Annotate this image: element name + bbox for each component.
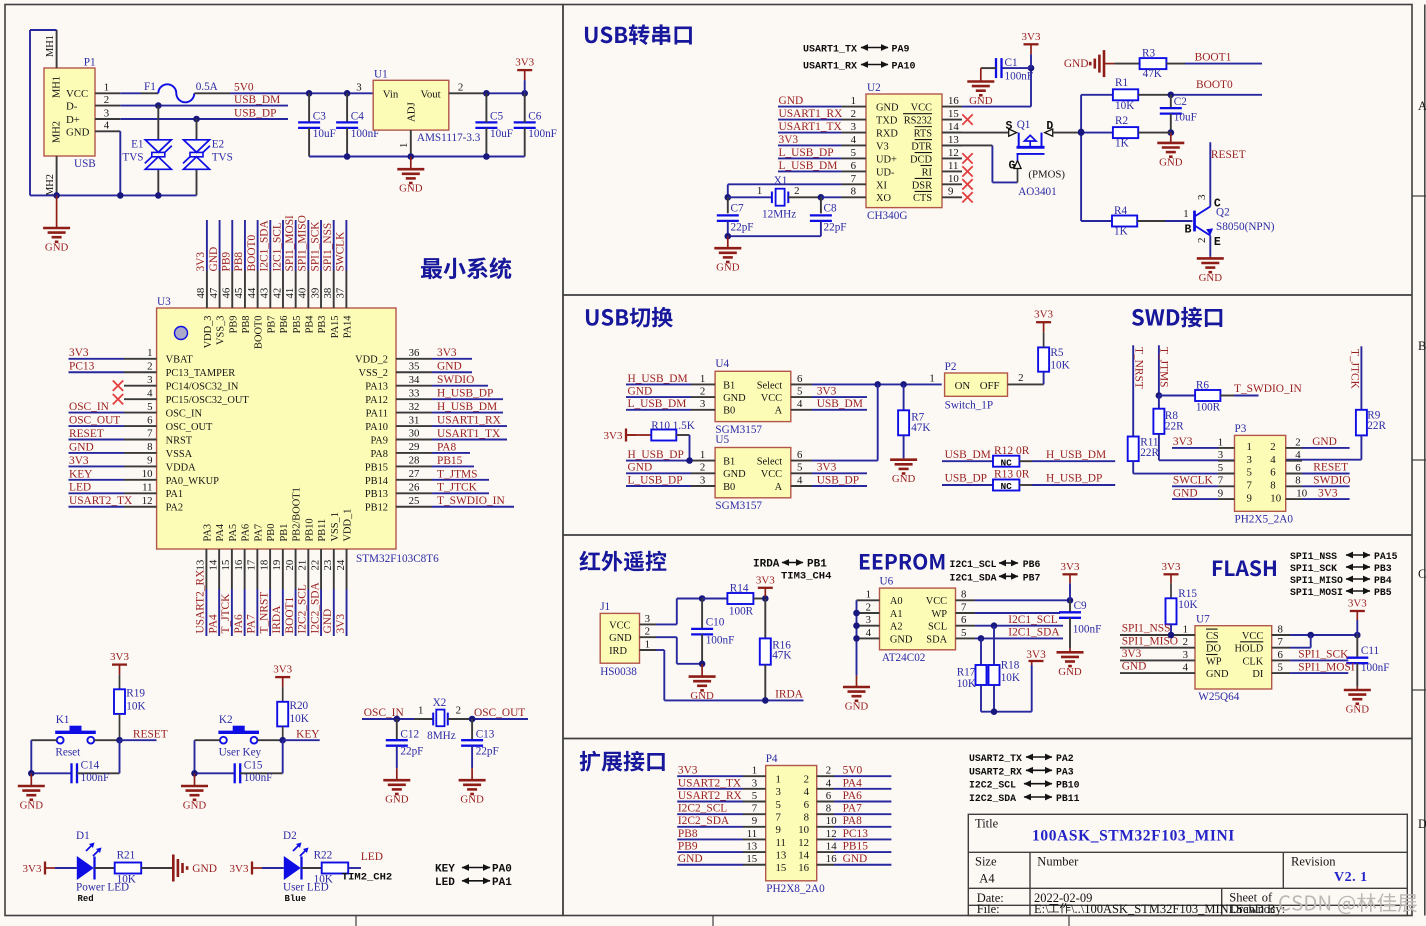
- svg-text:GND: GND: [385, 794, 409, 806]
- svg-text:1K: 1K: [1115, 138, 1129, 150]
- svg-text:USART2_RX: USART2_RX: [678, 790, 743, 802]
- svg-text:7: 7: [147, 428, 153, 440]
- svg-text:USB_DM: USB_DM: [234, 94, 280, 106]
- svg-text:13: 13: [948, 134, 959, 146]
- ground GND R7: [903, 458, 905, 460]
- svg-text:H_USB_DM: H_USB_DM: [1046, 449, 1106, 461]
- svg-text:TIM3_CH4: TIM3_CH4: [781, 571, 831, 583]
- svg-text:I2C2_SDA: I2C2_SDA: [678, 815, 730, 827]
- svg-text:R21: R21: [117, 849, 136, 861]
- svg-text:RESET: RESET: [1211, 149, 1246, 161]
- svg-text:VDDA: VDDA: [166, 462, 197, 473]
- svg-text:3V3: 3V3: [23, 863, 42, 875]
- svg-text:ON: ON: [955, 380, 971, 392]
- resistor D2: [302, 867, 322, 869]
- svg-text:11: 11: [776, 837, 786, 849]
- svg-text:NC: NC: [1000, 481, 1012, 492]
- svg-text:Vin: Vin: [383, 88, 399, 100]
- net OSC_IN U3.5: [69, 412, 125, 414]
- svg-text:PA1: PA1: [492, 877, 512, 889]
- svg-text:E:\: E:\: [1034, 902, 1049, 916]
- net USART1_TX U3.30: [432, 439, 507, 441]
- net BOOT0 U3.44: [257, 220, 259, 271]
- svg-text:0.5A: 0.5A: [196, 81, 218, 93]
- wire J1.2 to C10 bottom: [656, 636, 677, 638]
- svg-text:2: 2: [1295, 436, 1300, 448]
- IC U7 W25Q64: [1195, 626, 1272, 689]
- pin U3.39 PB3: [320, 271, 322, 309]
- svg-text:Reset: Reset: [55, 747, 81, 759]
- LED arrows D2: [293, 844, 300, 851]
- svg-text:DO: DO: [1206, 644, 1222, 655]
- svg-text:GND: GND: [1312, 436, 1337, 448]
- svg-text:D: D: [1418, 817, 1426, 831]
- svg-text:SWCLK: SWCLK: [335, 231, 347, 272]
- net T_JTCK vertical: [1360, 346, 1362, 410]
- svg-text:6: 6: [961, 614, 967, 626]
- svg-text:XO: XO: [876, 193, 892, 204]
- pin U3.30 PA9: [396, 439, 432, 441]
- svg-text:1: 1: [929, 373, 934, 385]
- pin U2.4 V3: [842, 144, 867, 146]
- svg-text:3V3: 3V3: [1348, 598, 1367, 610]
- svg-text:AT24C02: AT24C02: [882, 652, 926, 664]
- svg-text:TXD: TXD: [876, 115, 898, 126]
- svg-text:KEY: KEY: [69, 468, 92, 480]
- net GND U3.35: [432, 371, 472, 373]
- svg-text:A2: A2: [890, 622, 903, 633]
- svg-text:11: 11: [747, 828, 757, 840]
- wire MH1 to GND rail: [30, 29, 57, 31]
- svg-text:RS232: RS232: [904, 115, 932, 126]
- svg-text:PA4: PA4: [207, 614, 219, 634]
- section divider h3: [563, 738, 1412, 740]
- no-connect X U2.11: [962, 166, 972, 176]
- svg-text:16: 16: [826, 853, 837, 865]
- svg-text:6: 6: [147, 414, 153, 426]
- svg-text:Drawn By:: Drawn By:: [1230, 902, 1285, 916]
- pin P1.4 GND: [95, 130, 120, 132]
- svg-text:6: 6: [1295, 462, 1301, 474]
- svg-text:2: 2: [866, 601, 871, 613]
- pin U2.9 CTS: [942, 196, 962, 198]
- wire R8 to P3.3: [1158, 434, 1160, 460]
- svg-text:3: 3: [700, 398, 705, 410]
- svg-text:LED: LED: [435, 877, 455, 889]
- svg-text:6: 6: [797, 449, 803, 461]
- net SWDIO U3.34: [432, 385, 488, 387]
- svg-text:T_NRST: T_NRST: [1133, 347, 1145, 389]
- svg-text:R4: R4: [1114, 205, 1127, 217]
- svg-text:Q2: Q2: [1216, 206, 1230, 218]
- pin P4.6 PA6: [817, 801, 834, 803]
- title expansion header: [580, 751, 665, 772]
- svg-text:9: 9: [1218, 488, 1223, 500]
- svg-text:35: 35: [409, 360, 420, 372]
- pin U7.3 WP: [1120, 659, 1195, 661]
- svg-text:7: 7: [851, 173, 857, 185]
- section divider h2: [563, 534, 1412, 536]
- svg-text:4: 4: [804, 786, 810, 798]
- junction MH gnd: [53, 192, 60, 199]
- header P4 PH2X8_2A0: [766, 766, 817, 881]
- net T_SWDIO_IN U3.25: [432, 506, 514, 508]
- net H_USB_DM pin1: [626, 383, 691, 385]
- svg-text:OSC_OUT: OSC_OUT: [69, 414, 120, 426]
- svg-text:H_USB_DP: H_USB_DP: [628, 449, 684, 461]
- svg-text:RI: RI: [922, 167, 933, 178]
- svg-text:PH2X8_2A0: PH2X8_2A0: [766, 883, 825, 895]
- svg-text:F1: F1: [144, 81, 156, 93]
- svg-text:PA0_WKUP: PA0_WKUP: [166, 476, 220, 487]
- pin U3.3 PC14/OSC32_IN: [124, 385, 157, 387]
- title IR remote: [579, 551, 666, 572]
- junction D+ E2: [193, 116, 200, 123]
- pin P3.4: [1286, 460, 1302, 462]
- net PB15 P4.14: [834, 851, 891, 853]
- svg-text:H_USB_DM: H_USB_DM: [437, 401, 497, 413]
- svg-text:P4: P4: [766, 753, 778, 765]
- svg-text:GND: GND: [890, 634, 913, 645]
- wire R9 to P3.4: [1360, 435, 1362, 459]
- svg-text:X2: X2: [433, 697, 447, 709]
- net PA6 U3.16: [244, 589, 246, 636]
- svg-text:21: 21: [297, 560, 309, 571]
- svg-text:15: 15: [746, 853, 757, 865]
- wire U6 left common gnd: [856, 600, 858, 675]
- IC J1 HS0038: [600, 613, 639, 663]
- svg-text:Select: Select: [757, 380, 783, 391]
- pin U3.33 PA12: [396, 398, 432, 400]
- svg-text:Switch_1P: Switch_1P: [945, 399, 994, 411]
- svg-text:12: 12: [798, 837, 809, 849]
- svg-text:8: 8: [826, 803, 831, 815]
- net LED: [348, 867, 361, 869]
- svg-text:GND: GND: [969, 95, 993, 107]
- net I2C2_SDA U3.22: [320, 589, 322, 636]
- pin P3.2 GND: [1286, 447, 1302, 449]
- pin U3.41 PB5: [295, 271, 297, 309]
- pin J1.3: [640, 623, 657, 625]
- svg-text:I2C2_SCL: I2C2_SCL: [678, 803, 727, 815]
- pin U3.15 PA5: [231, 549, 233, 589]
- svg-text:1: 1: [104, 82, 109, 94]
- svg-text:3V3: 3V3: [1061, 561, 1080, 573]
- capacitor C6 100nF: [514, 121, 536, 123]
- svg-text:BOOT0: BOOT0: [254, 316, 265, 349]
- svg-text:C10: C10: [706, 616, 725, 628]
- resistor R8 22R: [1158, 396, 1160, 409]
- wire switch left down K2: [195, 739, 221, 741]
- svg-text:12MHz: 12MHz: [762, 209, 796, 221]
- pin U1.1 ADJ: [410, 130, 412, 156]
- capacitor C5 10uF: [475, 121, 497, 123]
- svg-text:C1: C1: [1005, 57, 1018, 69]
- svg-text:V2. 1: V2. 1: [1334, 870, 1368, 885]
- wire U5.6 riser: [812, 460, 878, 462]
- svg-text:3V3: 3V3: [110, 651, 129, 663]
- pin U6.6 SCL: [956, 625, 976, 627]
- svg-text:47K: 47K: [1143, 68, 1162, 80]
- svg-text:PC13: PC13: [843, 828, 869, 840]
- svg-text:GND: GND: [628, 386, 653, 398]
- svg-text:10K: 10K: [126, 701, 145, 713]
- svg-text:9: 9: [752, 815, 757, 827]
- svg-text:PB0: PB0: [266, 524, 277, 542]
- svg-text:4: 4: [1183, 662, 1189, 674]
- capacitor C10 100nF: [701, 599, 703, 629]
- net PB15 U3.28: [432, 465, 474, 467]
- resistor R5 10K: [1038, 347, 1049, 371]
- svg-text:4: 4: [866, 627, 872, 639]
- svg-text:34: 34: [409, 374, 420, 386]
- pin P4.14 PB15: [817, 851, 834, 853]
- pin P3.1 3V3: [1218, 447, 1235, 449]
- svg-text:OFF: OFF: [980, 380, 1000, 392]
- net GND U3.47: [219, 220, 221, 271]
- svg-text:3V3: 3V3: [195, 252, 207, 272]
- svg-text:USART2_TX: USART2_TX: [678, 777, 742, 789]
- svg-text:VCC: VCC: [761, 393, 782, 404]
- svg-text:GND: GND: [845, 701, 869, 713]
- svg-text:30: 30: [409, 428, 420, 440]
- svg-text:17: 17: [246, 559, 258, 570]
- svg-text:PB15: PB15: [365, 462, 388, 473]
- svg-text:X1: X1: [774, 175, 788, 187]
- wire R4 to Q2 base: [1137, 220, 1165, 222]
- svg-text:100R: 100R: [729, 605, 754, 617]
- svg-text:43: 43: [259, 288, 271, 299]
- pin U2.2 TXD: [842, 119, 867, 121]
- svg-text:2: 2: [804, 774, 809, 786]
- svg-text:U5: U5: [715, 434, 729, 446]
- pin P1 MH1: [56, 30, 58, 68]
- svg-text:1: 1: [1247, 441, 1252, 453]
- svg-text:15: 15: [220, 560, 232, 571]
- net PA6 P4.6: [834, 801, 891, 803]
- switch K1: [57, 737, 64, 744]
- pin U5.1: [691, 460, 715, 462]
- net L_USB_DM pin3: [626, 409, 691, 411]
- svg-text:PB15: PB15: [843, 841, 869, 853]
- net USART2_RX P4.5: [677, 801, 743, 803]
- svg-text:PA2: PA2: [1056, 753, 1074, 764]
- pin U3.20 PB2/BOOT1: [295, 549, 297, 589]
- svg-text:3V3: 3V3: [1122, 648, 1142, 660]
- pin J1.1: [640, 649, 657, 651]
- svg-text:PA4: PA4: [843, 777, 863, 789]
- resistor R17 10K: [980, 638, 982, 665]
- svg-text:GND: GND: [399, 183, 423, 195]
- pin U6.7 WP: [956, 612, 976, 614]
- ground GND Q2 emitter: [1209, 236, 1211, 257]
- svg-text:13: 13: [746, 841, 757, 853]
- svg-text:2: 2: [645, 626, 650, 638]
- svg-text:PC15/OSC32_OUT: PC15/OSC32_OUT: [166, 395, 250, 406]
- svg-text:2: 2: [458, 82, 463, 94]
- net OSC_OUT U3.6: [69, 425, 125, 427]
- svg-text:GND: GND: [66, 126, 90, 138]
- svg-text:G: G: [1009, 160, 1016, 173]
- svg-text:L_USB_DP: L_USB_DP: [628, 474, 683, 486]
- title USB to serial: [585, 24, 692, 45]
- svg-text:R12 0R: R12 0R: [994, 445, 1030, 457]
- svg-text:IRD: IRD: [609, 646, 627, 657]
- pin U3.9 VDDA: [124, 465, 157, 467]
- pin U3.10 PA0_WKUP: [124, 479, 157, 481]
- svg-text:1: 1: [1183, 208, 1188, 220]
- svg-text:GND: GND: [1173, 487, 1198, 499]
- pin U3.7 NRST: [124, 439, 157, 441]
- svg-text:14: 14: [826, 841, 837, 853]
- switch K2: [220, 737, 227, 744]
- pin U7.7 HOLD: [1272, 647, 1290, 649]
- pin U6.8 VCC: [956, 599, 976, 601]
- svg-text:GND: GND: [843, 853, 868, 865]
- pin U3.1 VBAT: [124, 358, 157, 360]
- svg-text:R10 1.5K: R10 1.5K: [651, 420, 695, 432]
- svg-text:GND: GND: [723, 469, 746, 480]
- svg-text:8: 8: [1295, 475, 1300, 487]
- svg-text:DI: DI: [1252, 669, 1264, 680]
- svg-text:IRDA: IRDA: [775, 689, 804, 701]
- svg-text:E2: E2: [212, 139, 224, 151]
- pin U3.19 PB1: [282, 549, 284, 589]
- svg-text:22R: 22R: [1165, 421, 1184, 433]
- title USB switch: [586, 307, 673, 328]
- svg-text:10K: 10K: [1050, 360, 1069, 372]
- svg-text:MH1: MH1: [45, 35, 56, 57]
- svg-text:PB7: PB7: [1023, 572, 1041, 583]
- svg-text:PB15: PB15: [437, 455, 463, 467]
- svg-text:R1: R1: [1115, 77, 1128, 89]
- svg-text:PB13: PB13: [365, 489, 388, 500]
- pin P4.10 PA8: [817, 826, 834, 828]
- junction C5 bottom: [483, 153, 490, 160]
- net SPI1_SCK U3.39: [320, 220, 322, 271]
- svg-text:22R: 22R: [1140, 447, 1159, 459]
- svg-text:PB10: PB10: [304, 518, 315, 541]
- svg-text:P3: P3: [1235, 423, 1247, 435]
- svg-text:47K: 47K: [911, 422, 930, 434]
- svg-text:PA8: PA8: [437, 441, 457, 453]
- net PC13 P4.12: [834, 838, 891, 840]
- svg-text:T_JTMS: T_JTMS: [437, 468, 478, 480]
- net 3V3 U3.24: [346, 589, 348, 636]
- svg-text:VSSA: VSSA: [166, 449, 193, 460]
- svg-text:NC: NC: [1000, 457, 1012, 468]
- pin U7.5 DI: [1272, 672, 1290, 674]
- net BOOT1: [1166, 63, 1185, 65]
- capacitor C K2: [195, 772, 235, 774]
- net I2C2_SCL P4.7: [677, 813, 743, 815]
- svg-text:C13: C13: [476, 728, 495, 740]
- ground GND U1: [410, 157, 412, 170]
- wire switch to junction K1: [94, 739, 119, 741]
- pin U2.11 RI: [942, 170, 962, 172]
- net I2C1_SCL U6.6: [975, 625, 1063, 627]
- pin U6.1 A0: [857, 599, 880, 601]
- svg-text:24: 24: [335, 559, 347, 570]
- svg-text:I2C2_SDA: I2C2_SDA: [969, 793, 1016, 804]
- svg-text:14: 14: [207, 559, 219, 570]
- wire switch left down K1: [31, 739, 57, 741]
- pin U4.1: [691, 383, 715, 385]
- svg-text:PB4: PB4: [1374, 575, 1392, 586]
- regulator U1 AMS1117-3.3: [373, 80, 449, 130]
- svg-text:D+: D+: [66, 114, 80, 126]
- svg-text:USART2_RX: USART2_RX: [969, 766, 1022, 777]
- net PB8 P4.11: [677, 838, 743, 840]
- svg-text:VCC: VCC: [761, 469, 782, 480]
- svg-text:USART1_RX: USART1_RX: [437, 414, 502, 426]
- svg-text:1: 1: [700, 373, 705, 385]
- svg-text:1: 1: [752, 765, 757, 777]
- capacitor C9 100nF: [1069, 600, 1071, 612]
- svg-text:5: 5: [1247, 467, 1252, 479]
- svg-text:U4: U4: [715, 358, 729, 370]
- title SWD interface: [1132, 307, 1222, 328]
- svg-text:GND: GND: [460, 794, 484, 806]
- svg-text:GND: GND: [1058, 666, 1082, 678]
- svg-text:I2C1_SDA: I2C1_SDA: [259, 219, 271, 271]
- net SPI1_MISO U3.40: [307, 220, 309, 271]
- svg-text:12: 12: [948, 147, 959, 159]
- svg-text:32: 32: [409, 401, 420, 413]
- pin U3.32 PA11: [396, 412, 432, 414]
- svg-text:K1: K1: [56, 714, 70, 726]
- svg-text:6: 6: [851, 160, 857, 172]
- svg-text:UD+: UD+: [876, 154, 897, 165]
- LED D1: [55, 867, 77, 869]
- svg-text:T_JTCK: T_JTCK: [220, 593, 232, 634]
- svg-text:9: 9: [948, 186, 953, 198]
- svg-text:A: A: [775, 406, 783, 417]
- svg-text:S8050(NPN): S8050(NPN): [1216, 221, 1275, 233]
- svg-text:11: 11: [948, 160, 958, 172]
- net SWCLK U3.37: [345, 220, 347, 271]
- svg-text:IRDA: IRDA: [753, 559, 780, 571]
- svg-text:1: 1: [418, 705, 423, 717]
- pin U3.22 PB11: [320, 549, 322, 589]
- svg-text:VDD_2: VDD_2: [355, 355, 388, 366]
- svg-text:PB14: PB14: [365, 476, 389, 487]
- svg-text:9: 9: [147, 455, 152, 467]
- pin U3.42 PB6: [282, 271, 284, 309]
- svg-text:3V3: 3V3: [69, 455, 89, 467]
- svg-text:RXD: RXD: [876, 128, 898, 139]
- svg-text:I2C1_SCL: I2C1_SCL: [950, 559, 997, 570]
- no-connect X U2.9: [962, 192, 972, 202]
- junction C6 top: [521, 90, 528, 97]
- svg-text:18: 18: [258, 560, 270, 571]
- svg-text:19: 19: [271, 560, 283, 571]
- junction osc_in C12: [394, 716, 401, 723]
- pin U2.8 XO: [842, 196, 867, 198]
- wire U2.16 to C1: [962, 106, 1031, 108]
- svg-text:User Key: User Key: [219, 747, 262, 759]
- svg-text:RESET: RESET: [1313, 462, 1348, 474]
- svg-text:OSC_OUT: OSC_OUT: [474, 707, 525, 719]
- svg-text:Size: Size: [975, 855, 997, 869]
- svg-text:1: 1: [776, 774, 781, 786]
- svg-text:3: 3: [1218, 449, 1223, 461]
- net BOOT0: [1171, 94, 1262, 96]
- svg-text:22pF: 22pF: [400, 746, 423, 758]
- no-connect X U3.4: [113, 394, 123, 404]
- pin U3.28 PB15: [396, 465, 432, 467]
- title block frame: [968, 814, 1407, 915]
